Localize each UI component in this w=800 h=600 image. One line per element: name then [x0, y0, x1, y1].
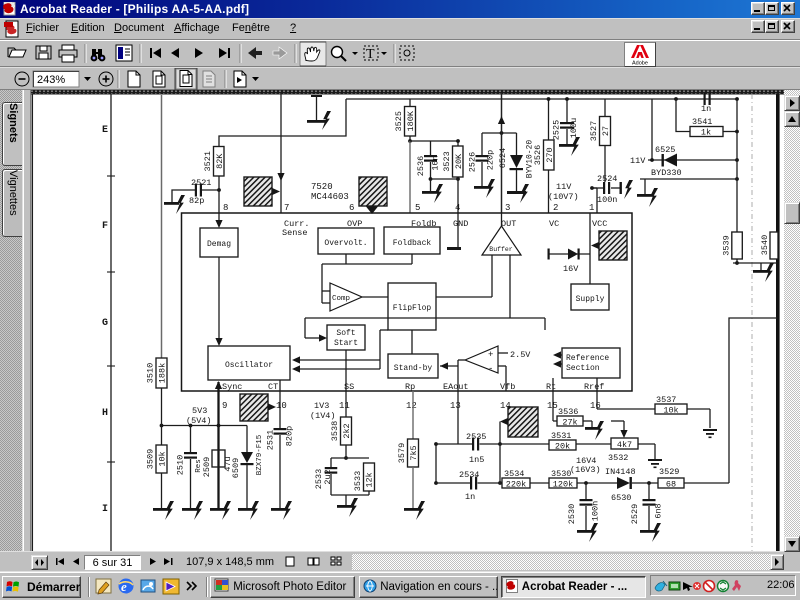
OUT rail pin 3 — [501, 93, 503, 213]
separator — [294, 44, 296, 63]
system tray — [650, 575, 796, 596]
page left border — [31, 95, 33, 552]
wire into Stand-by arrow — [440, 365, 458, 367]
svg-text:Foldback: Foldback — [393, 239, 432, 248]
zener diode D6509 BZX79-F15 — [246, 426, 248, 453]
svg-text:2510: 2510 — [176, 455, 186, 475]
row y444 wire — [436, 443, 473, 445]
resistor R3579 7k5 — [412, 391, 414, 439]
wire Rt pin 15 to Reference — [552, 378, 554, 391]
resistor R3538 2k2 — [345, 391, 347, 417]
wire lower row y179 — [640, 178, 737, 180]
ground D6524 — [507, 191, 526, 194]
block Stand-by — [388, 354, 438, 378]
left tab strip — [0, 90, 30, 551]
arrows out of Reference Section — [556, 354, 562, 356]
svg-text:11V: 11V — [630, 156, 646, 166]
page fold dash line — [751, 94, 753, 551]
toolbar row 1 — [0, 40, 800, 67]
hatched transformer box T4 — [240, 394, 268, 421]
graphics select tool — [393, 44, 395, 63]
svg-text:11: 11 — [339, 401, 350, 411]
svg-text:120k: 120k — [553, 480, 573, 490]
wire Vfb to pin 14 — [498, 365, 506, 367]
svg-text:2526: 2526 — [468, 152, 478, 172]
svg-text:G: G — [102, 318, 108, 329]
grid reference line — [110, 95, 112, 552]
svg-text:16V: 16V — [563, 264, 579, 274]
svg-text:Demag: Demag — [207, 240, 231, 249]
op-amp IC U7520 MC44603 outline — [182, 213, 633, 391]
wire VCC inner to Supply — [589, 213, 591, 284]
svg-text:-: - — [488, 364, 493, 374]
node R3525 bottom — [409, 136, 411, 141]
svg-text:4k7: 4k7 — [617, 440, 632, 450]
svg-text:10: 10 — [276, 401, 287, 411]
svg-text:1: 1 — [589, 203, 594, 213]
svg-text:3540: 3540 — [760, 235, 770, 255]
svg-text:1k: 1k — [701, 128, 711, 138]
svg-text:Sync: Sync — [222, 382, 242, 392]
capacitor to ground at top — [311, 95, 322, 97]
hatched transformer box T3 — [599, 231, 627, 260]
page right border — [776, 95, 780, 552]
svg-text:100n: 100n — [597, 195, 617, 205]
svg-text:10n: 10n — [431, 155, 441, 170]
svg-text:GND: GND — [453, 219, 468, 229]
svg-text:Section: Section — [566, 364, 600, 373]
svg-text:1n5: 1n5 — [469, 455, 484, 465]
svg-text:7: 7 — [284, 203, 289, 213]
svg-text:10k: 10k — [158, 451, 168, 466]
svg-text:180K: 180K — [406, 110, 416, 131]
separator — [239, 44, 241, 63]
svg-text:H: H — [102, 408, 108, 419]
svg-text:243%: 243% — [37, 74, 65, 86]
ground R3532 — [648, 459, 662, 461]
resistor R3540 at page edge — [770, 232, 778, 259]
svg-text:2530: 2530 — [567, 504, 577, 524]
taskbar — [0, 571, 800, 600]
svg-text:MC44603: MC44603 — [311, 192, 349, 202]
svg-text:3541: 3541 — [692, 117, 712, 127]
wire EA to pin 13 — [458, 359, 465, 361]
wire into Soft Start — [304, 318, 306, 338]
wire C2521 left to ground — [172, 190, 195, 202]
node rail 5V3 — [162, 425, 248, 427]
wire 11V diode row — [648, 159, 737, 161]
wire Comp to FlipFlop — [362, 296, 388, 298]
long inner wire y318 — [305, 317, 545, 319]
svg-text:3509: 3509 — [146, 449, 156, 469]
svg-text:2529: 2529 — [630, 504, 640, 524]
svg-text:3538: 3538 — [330, 421, 340, 441]
svg-text:8: 8 — [223, 203, 228, 213]
svg-text:82p: 82p — [189, 196, 204, 206]
parallel RC C2533 R3533 — [331, 457, 369, 459]
ground C2510 — [182, 508, 199, 511]
title bar — [0, 0, 800, 18]
svg-text:6n8: 6n8 — [654, 503, 664, 518]
svg-text:5: 5 — [415, 203, 420, 213]
wire left rail x436 — [435, 444, 437, 483]
wire to R3531 — [500, 443, 549, 445]
svg-text:100n: 100n — [591, 501, 601, 521]
wire Overvolt/Foldback to comparator — [345, 254, 347, 264]
svg-text:10k: 10k — [663, 406, 678, 416]
svg-text:3: 3 — [505, 203, 510, 213]
wires into Oscillator with arrows — [294, 359, 380, 361]
capacitor C2530 100n — [585, 483, 587, 499]
wire pin 7 from top — [280, 93, 282, 213]
wire pin 2 down — [548, 170, 550, 213]
resistor R3523 20K — [453, 146, 464, 177]
svg-text:Start: Start — [334, 339, 358, 348]
diode D6525 BYD330 — [662, 154, 664, 167]
svg-text:EAout: EAout — [443, 382, 469, 392]
svg-text:7520: 7520 — [311, 182, 333, 192]
Vignettes tab — [2, 169, 22, 237]
svg-text:6: 6 — [349, 203, 354, 213]
svg-text:5V3: 5V3 — [192, 406, 207, 416]
ground C2526 — [474, 186, 490, 189]
diode D6524 BYV10-20 — [516, 133, 518, 155]
svg-text:(16V3): (16V3) — [570, 465, 601, 475]
svg-text:6509: 6509 — [231, 458, 241, 478]
svg-text:Rref: Rref — [584, 382, 604, 392]
node R3539 bottom — [736, 259, 738, 263]
svg-text:68: 68 — [666, 480, 676, 490]
svg-text:2u2: 2u2 — [323, 469, 333, 484]
ground C2530 — [577, 530, 594, 533]
nav first — [150, 48, 152, 58]
svg-text:7k5: 7k5 — [409, 445, 419, 460]
node at R3521 bottom — [217, 188, 221, 192]
capacitor C2524 100n — [590, 186, 594, 190]
block Foldback — [384, 227, 440, 254]
status bar — [0, 551, 784, 571]
svg-text:4: 4 — [455, 203, 460, 213]
separator — [84, 44, 86, 63]
svg-text:2525: 2525 — [552, 120, 562, 140]
node C2536 bottom — [429, 177, 433, 181]
binoculars — [92, 49, 102, 59]
zoom tool — [332, 47, 343, 58]
wire pin 4 GND down into IC — [457, 179, 459, 247]
svg-text:Supply: Supply — [576, 295, 605, 304]
wire pin 13 down — [457, 391, 459, 444]
wire node row y141 — [410, 140, 459, 142]
svg-text:6530: 6530 — [611, 493, 631, 503]
resistor R3509 10k — [161, 426, 163, 446]
ground C2509 — [210, 508, 227, 511]
svg-text:Soft: Soft — [336, 329, 355, 338]
resistor R3526 270 — [544, 140, 555, 170]
svg-text:3526: 3526 — [533, 145, 543, 165]
block Supply — [571, 284, 609, 310]
capacitor C2526 220p — [481, 133, 483, 155]
svg-text:Rt: Rt — [546, 382, 556, 392]
Signets tab — [2, 102, 22, 166]
svg-text:100u: 100u — [569, 118, 579, 138]
svg-text:IN4148: IN4148 — [605, 467, 636, 477]
svg-text:11V: 11V — [556, 182, 572, 192]
ground C2529 — [640, 530, 657, 533]
svg-text:27k: 27k — [562, 418, 577, 428]
white page with schematic — [31, 90, 784, 551]
resistor R3521 82K — [214, 147, 225, 177]
svg-text:BZX79-F15: BZX79-F15 — [256, 434, 264, 475]
wire pin 5 down — [409, 141, 411, 213]
svg-text:3523: 3523 — [442, 151, 452, 171]
svg-text:Reference: Reference — [566, 354, 609, 363]
resistor R3525 180K — [405, 107, 416, 137]
quick launch icons — [95, 576, 203, 598]
svg-text:Oscillator: Oscillator — [225, 361, 273, 370]
svg-text:+: + — [488, 350, 493, 360]
block Overvolt — [318, 228, 374, 254]
svg-text:820p: 820p — [285, 426, 295, 446]
svg-text:1V3: 1V3 — [314, 401, 329, 411]
wire Sync pin 9 bold — [217, 382, 219, 426]
wire OUT to Buffer — [501, 213, 503, 226]
svg-text:Vfb: Vfb — [500, 382, 515, 392]
ground bar inside IC at GND — [447, 247, 461, 250]
diode D16V — [549, 253, 591, 255]
save floppy — [36, 46, 51, 59]
back arrow (black) — [248, 47, 262, 59]
svg-text:3521: 3521 — [203, 151, 213, 171]
page with text icon — [116, 45, 132, 61]
svg-text:220k: 220k — [506, 480, 526, 490]
svg-text:I: I — [102, 504, 108, 515]
ground R3579 — [404, 508, 421, 511]
ground y263 — [760, 263, 762, 270]
ground R3537 — [703, 429, 717, 431]
svg-text:2521: 2521 — [191, 178, 211, 188]
svg-text:Sense: Sense — [282, 228, 308, 238]
resistor R3537 10k — [596, 391, 598, 409]
ground R3536 — [585, 427, 599, 430]
ground R3509 — [153, 508, 170, 511]
buffer amplifier Buffer — [482, 226, 521, 255]
error amp triangle — [465, 346, 498, 373]
svg-text:(10V7): (10V7) — [548, 192, 579, 202]
capacitor C2534 1n — [470, 477, 472, 490]
svg-text:9: 9 — [222, 401, 227, 411]
page mode buttons — [128, 71, 140, 87]
comparator Comp — [330, 283, 362, 311]
ground D6509 — [238, 508, 255, 511]
wire bottom-right box — [729, 318, 777, 483]
resistor R3510 188k — [156, 358, 167, 388]
resistor R3536 27k — [552, 391, 554, 421]
wire Demag to Oscillator — [218, 257, 220, 341]
svg-text:Stand-by: Stand-by — [394, 364, 433, 373]
capacitor C2529 6n8 — [648, 483, 650, 499]
svg-text:2k2: 2k2 — [342, 423, 352, 438]
svg-text:188k: 188k — [158, 363, 168, 383]
potentiometer R3532 4k7 — [611, 438, 638, 449]
capacitor C2535 1n5 — [472, 438, 474, 451]
svg-text:20k: 20k — [555, 442, 570, 452]
svg-text:2.5V: 2.5V — [510, 350, 531, 360]
svg-text:220p: 220p — [486, 150, 496, 170]
svg-text:20K: 20K — [454, 153, 464, 169]
capacitor C2536 10n — [430, 141, 432, 155]
hatched transformer box T2 — [359, 177, 387, 206]
svg-text:Adobe: Adobe — [632, 61, 648, 67]
hatched opto box T5 — [508, 407, 538, 437]
block FlipFlop — [388, 283, 436, 330]
svg-text:E: E — [102, 125, 108, 136]
svg-text:270: 270 — [545, 147, 555, 162]
capacitor C2510 — [190, 426, 192, 453]
wire Oscillator to pin 10 — [279, 380, 281, 391]
svg-text:Comp: Comp — [332, 295, 350, 303]
ground C2521 — [164, 202, 179, 205]
ground on y179 row — [644, 179, 646, 194]
ground RC group — [345, 495, 347, 505]
wire pin 8 down to Demag — [218, 190, 220, 222]
svg-text:1n: 1n — [701, 104, 711, 114]
separator — [139, 44, 141, 63]
open folder — [9, 50, 26, 57]
wire pin 1 VCC — [596, 188, 598, 213]
svg-text:3510: 3510 — [146, 363, 156, 383]
ground C2531 — [271, 508, 288, 511]
svg-text:2536: 2536 — [416, 156, 426, 176]
print — [59, 50, 77, 57]
resistor R3539 — [732, 232, 743, 259]
svg-text:Buffer: Buffer — [489, 246, 513, 253]
svg-text:FlipFlop: FlipFlop — [393, 304, 432, 313]
wire y133 node row — [482, 132, 517, 134]
wire FlipFlop to Stand-by — [411, 330, 413, 354]
page top dark band — [31, 90, 784, 95]
svg-text:82K: 82K — [215, 153, 225, 169]
svg-text:2535: 2535 — [466, 432, 486, 442]
resistor R3527 27 — [600, 117, 611, 146]
hatched transformer box T1 — [244, 177, 272, 206]
wire Soft Start to pin 11 — [345, 350, 347, 391]
wire C2536 ground — [430, 179, 432, 191]
ground C2536 — [422, 191, 438, 194]
svg-text:6525: 6525 — [655, 145, 675, 155]
svg-text:13: 13 — [450, 401, 461, 411]
row y483 wire — [436, 482, 471, 484]
vertical scrollbar — [784, 90, 800, 551]
toolbar row 2 — [0, 67, 800, 90]
hand tool pressed — [300, 42, 326, 66]
block Oscillator — [208, 346, 290, 380]
svg-text:3527: 3527 — [589, 121, 599, 141]
wire y263 to page edge — [733, 262, 777, 264]
svg-text:Overvolt.: Overvolt. — [324, 239, 367, 248]
svg-text:(1V4): (1V4) — [310, 411, 336, 421]
capacitor C2521 82p — [195, 184, 197, 197]
wire C2521 right to node — [202, 189, 219, 191]
svg-text:VC: VC — [549, 219, 559, 229]
wire left rail to R3510 — [161, 95, 163, 358]
svg-text:3579: 3579 — [397, 443, 407, 463]
svg-text:27: 27 — [601, 126, 611, 136]
capacitor C2509 47u — [217, 426, 219, 509]
Adobe button — [624, 42, 656, 67]
svg-text:1n: 1n — [465, 492, 475, 502]
svg-text:VCC: VCC — [592, 219, 607, 229]
wire Rref pin 16 to Reference — [596, 378, 598, 391]
svg-text:3525: 3525 — [394, 111, 404, 131]
menu bar — [0, 18, 800, 40]
svg-text:OUT: OUT — [501, 219, 516, 229]
svg-text:12: 12 — [406, 401, 417, 411]
svg-text:2509: 2509 — [202, 457, 212, 477]
ground C2525 — [559, 144, 575, 147]
wire FlipFlop to Buffer — [436, 296, 492, 298]
svg-text:3532: 3532 — [608, 453, 628, 463]
block Demag — [200, 228, 238, 257]
svg-text:3539: 3539 — [721, 235, 731, 255]
svg-text:Rp: Rp — [405, 382, 415, 392]
svg-text:CT: CT — [268, 382, 278, 392]
wire R3521 top feed — [219, 99, 346, 147]
wire H5 pointer down — [499, 422, 501, 484]
svg-text:BYD330: BYD330 — [651, 168, 682, 178]
reference 2.5V — [498, 352, 508, 354]
svg-text:12k: 12k — [365, 472, 375, 487]
svg-text:2: 2 — [553, 203, 558, 213]
capacitor C2525 100u — [566, 99, 568, 122]
fwd arrow (disabled) — [273, 47, 287, 59]
svg-text:F: F — [102, 221, 108, 232]
right rail wire — [736, 99, 738, 232]
capacitor C2531 820p — [279, 391, 281, 428]
svg-text:2534: 2534 — [459, 470, 479, 480]
block Soft Start — [327, 325, 365, 350]
main top horizontal wire — [346, 98, 737, 100]
svg-text:2524: 2524 — [597, 174, 617, 184]
svg-text:2531: 2531 — [266, 430, 276, 450]
node dots right rail — [735, 97, 739, 101]
wire branch down at x652 — [651, 99, 653, 160]
svg-text:6524: 6524 — [498, 148, 508, 168]
capacitor C1n top — [674, 97, 678, 101]
svg-text:3533: 3533 — [353, 471, 363, 491]
svg-text:3529: 3529 — [659, 467, 679, 477]
block Reference Section — [562, 348, 620, 378]
